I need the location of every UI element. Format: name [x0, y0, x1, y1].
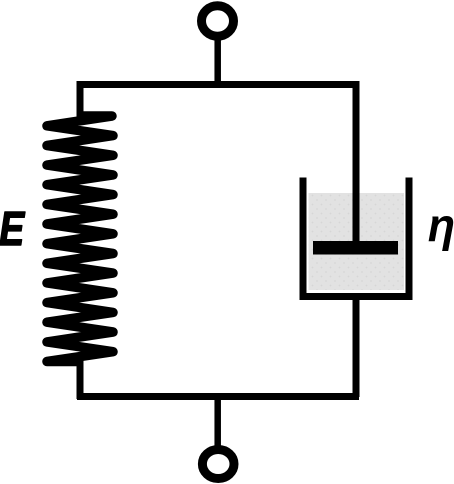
wire: bottom rail: [77, 393, 359, 400]
terminal circle (bottom): [202, 450, 234, 479]
wire: right branch / piston rod: [353, 81, 360, 246]
label eta (viscosity): [429, 216, 454, 251]
dashpot cylinder right wall: [406, 178, 413, 298]
spring E (zigzag): [47, 116, 113, 362]
wire: bottom lead from spring: [77, 358, 84, 399]
terminal circle (top): [202, 6, 234, 36]
dashpot piston plate: [313, 241, 398, 255]
dashpot cylinder left wall: [300, 178, 307, 298]
wire: below dashpot: [353, 297, 360, 397]
wire: top stem: [214, 36, 221, 88]
dashpot fluid fill: [309, 193, 405, 290]
wire: top lead to spring: [77, 81, 84, 120]
label E (spring modulus): [0, 212, 25, 245]
wire: bottom stem: [214, 396, 221, 449]
wire: top rail: [77, 81, 359, 88]
dashpot cylinder bottom: [300, 293, 413, 300]
